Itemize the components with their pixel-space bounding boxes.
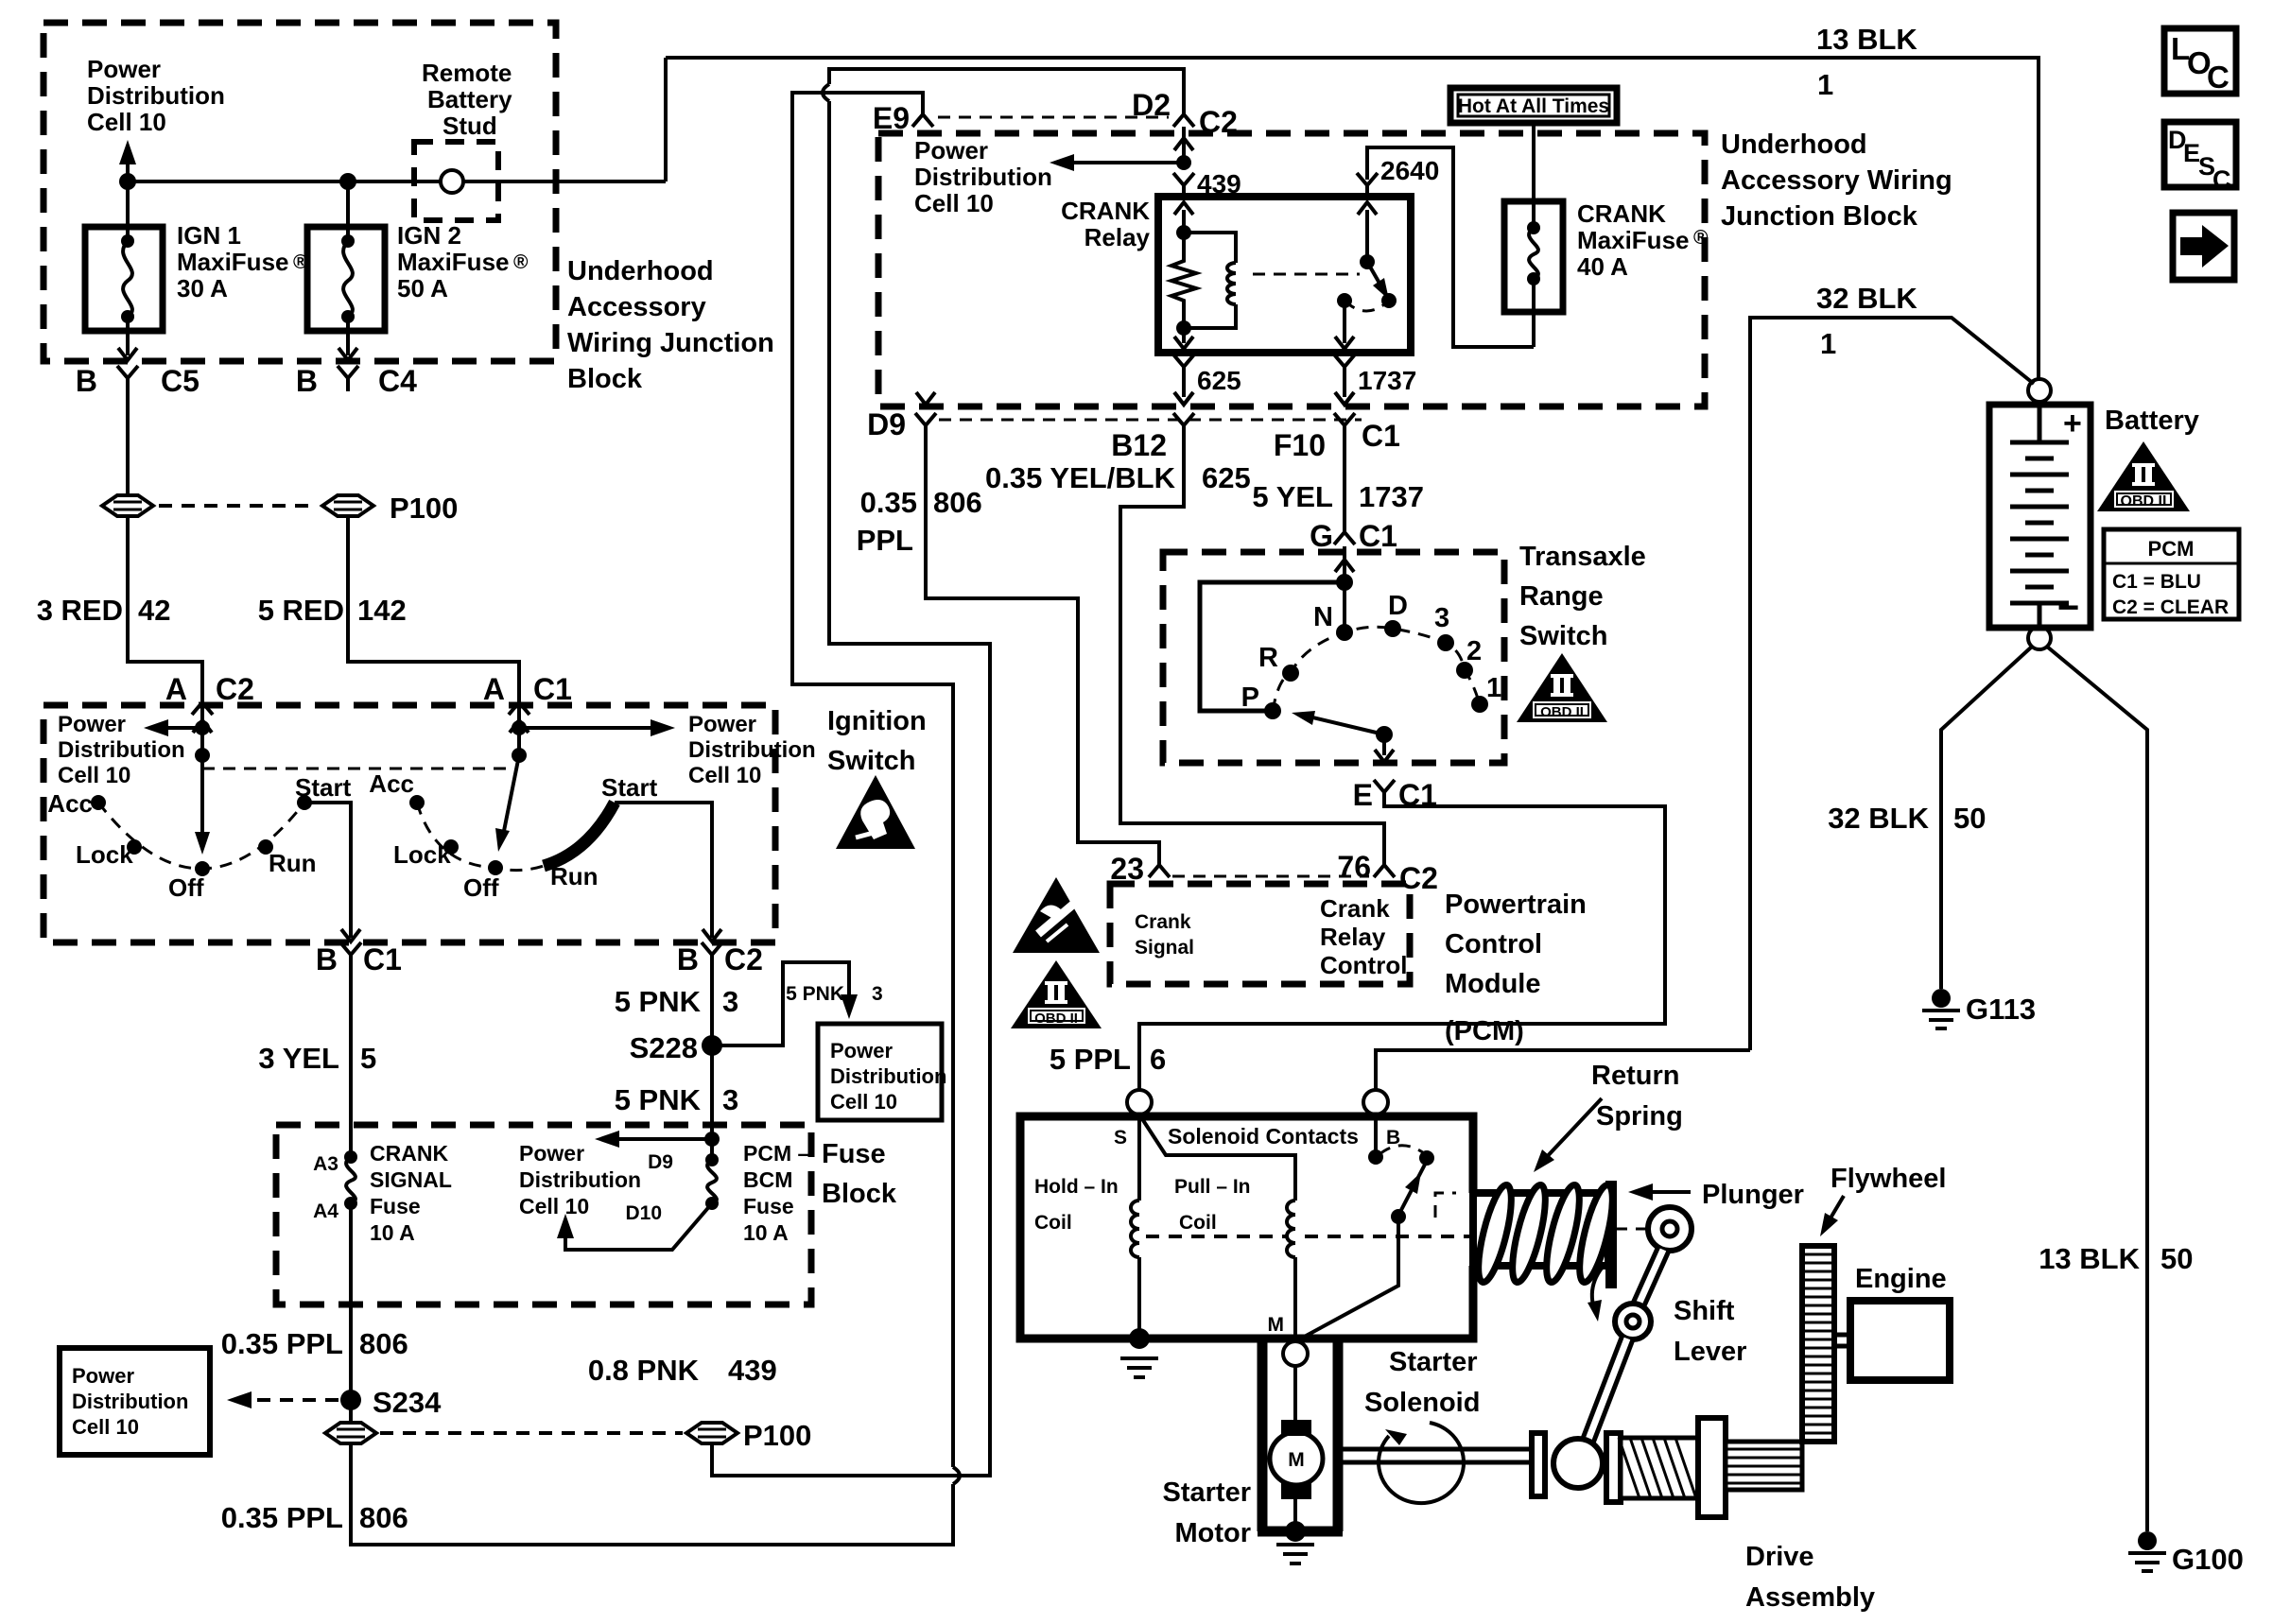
- wire start left to BC1: [304, 803, 351, 938]
- wire D2 439 drop: [1063, 127, 1184, 163]
- wire E to solenoid S: [1139, 805, 1665, 1089]
- svg-text:P100: P100: [390, 492, 458, 525]
- battery cell plates: [2038, 401, 2042, 442]
- label crank relay control: [1320, 894, 1407, 979]
- svg-text:Cell 10: Cell 10: [58, 763, 130, 788]
- svg-text:3 YEL: 3 YEL: [258, 1042, 339, 1075]
- connector E9: [912, 102, 933, 127]
- svg-text:1737: 1737: [1359, 480, 1424, 513]
- node relay coil bottom: [1176, 320, 1191, 336]
- wire pull-in to M: [1293, 1257, 1297, 1339]
- contact AccL: [91, 795, 106, 810]
- wire 32 BLK: [1750, 318, 2034, 1050]
- wire 0.35 PPL long run: [351, 93, 953, 1545]
- label shift lever: [1674, 1296, 1746, 1367]
- wire ignition right feed: [517, 705, 521, 755]
- svg-text:Distribution: Distribution: [58, 737, 185, 763]
- svg-text:5 YEL: 5 YEL: [1252, 480, 1333, 513]
- svg-text:®: ®: [1693, 227, 1709, 249]
- junction block right dashed box: [878, 133, 1705, 406]
- drive pinion gear: [1726, 1442, 1802, 1490]
- wire start right to BC2: [615, 803, 712, 938]
- svg-text:42: 42: [138, 594, 170, 627]
- label remote battery stud: [422, 59, 512, 140]
- crank relay box: [1158, 197, 1411, 353]
- svg-text:Stud: Stud: [442, 112, 497, 140]
- svg-text:Off: Off: [168, 873, 204, 902]
- flywheel pointer: [1826, 1196, 1844, 1226]
- label 5 RED 142: [258, 594, 407, 627]
- wire IGN1 out: [126, 317, 130, 355]
- wire PPL below fuse: [349, 1203, 353, 1423]
- svg-text:A: A: [165, 672, 187, 706]
- svg-text:Distribution: Distribution: [72, 1390, 188, 1413]
- svg-text:Wiring Junction: Wiring Junction: [567, 328, 774, 358]
- svg-text:A3: A3: [313, 1153, 338, 1175]
- svg-text:B: B: [76, 364, 97, 398]
- contact R: [1282, 665, 1299, 682]
- svg-text:13 BLK: 13 BLK: [1816, 23, 1917, 56]
- svg-text:10 A: 10 A: [743, 1220, 789, 1245]
- wire S to pull-in: [1139, 1114, 1295, 1201]
- svg-text:Accessory Wiring: Accessory Wiring: [1721, 165, 1952, 196]
- svg-text:Distribution: Distribution: [914, 163, 1052, 191]
- contact dashed arc: [1379, 1146, 1424, 1154]
- svg-text:B: B: [296, 364, 318, 398]
- wire 3 RED down: [126, 391, 130, 495]
- wiper arm left: [200, 755, 204, 838]
- wire 3 RED to A C2: [128, 516, 202, 692]
- wire 5 RED to A C1: [348, 516, 519, 692]
- svg-text:M: M: [1268, 1314, 1285, 1336]
- wire D10 branch: [565, 1203, 712, 1250]
- wire to IGN2: [346, 181, 350, 241]
- return spring pointer: [1543, 1098, 1602, 1161]
- label 5 YEL 1737: [1252, 480, 1424, 513]
- arrow power dist fuse block: [608, 1137, 712, 1141]
- svg-text:Starter: Starter: [1163, 1477, 1252, 1508]
- fuse crank signal element: [344, 1150, 357, 1164]
- contact arc left: [98, 803, 304, 869]
- svg-text:625: 625: [1197, 366, 1241, 395]
- svg-text:E: E: [1353, 778, 1373, 812]
- connector 439: [1174, 138, 1193, 150]
- label starter solenoid: [1364, 1347, 1480, 1418]
- label pull-in coil: [1174, 1176, 1251, 1234]
- svg-text:Acc: Acc: [47, 789, 93, 818]
- svg-text:OBD II: OBD II: [2121, 493, 2167, 510]
- svg-text:(PCM): (PCM): [1445, 1016, 1524, 1046]
- arrow to power distribution: [126, 153, 130, 181]
- plunger dashed corner: [1435, 1193, 1456, 1218]
- label ignition switch: [827, 706, 927, 776]
- terminal B: [1363, 1090, 1388, 1114]
- connector B C4: [338, 366, 358, 391]
- svg-text:B: B: [677, 942, 699, 976]
- fuse IGN2 box: [307, 227, 385, 331]
- svg-text:Power: Power: [72, 1364, 134, 1388]
- dashed arrow S234: [240, 1398, 338, 1402]
- wire battery to grounds: [1941, 647, 2147, 1531]
- splice P100 PPL: [325, 1423, 376, 1443]
- relay pin439 arrow: [1182, 210, 1186, 233]
- svg-text:Crank: Crank: [1135, 911, 1191, 933]
- svg-text:Power: Power: [830, 1039, 893, 1063]
- label 13 BLK 1: [1816, 23, 1917, 101]
- node ignition right: [512, 720, 527, 735]
- svg-text:5: 5: [360, 1042, 376, 1075]
- starter motor frame: [1258, 1339, 1343, 1531]
- svg-text:M: M: [1288, 1449, 1305, 1471]
- wire M to brush: [1293, 1366, 1297, 1420]
- splice P100 right: [322, 495, 373, 516]
- svg-text:Fuse: Fuse: [822, 1139, 886, 1169]
- svg-text:625: 625: [1202, 461, 1251, 494]
- wiper arm right: [503, 755, 519, 836]
- svg-text:Spring: Spring: [1596, 1101, 1683, 1132]
- dashed P100 link bottom: [380, 1431, 683, 1435]
- remote battery stud terminal: [441, 170, 463, 193]
- caution OBD PCM: [1011, 960, 1102, 1028]
- transaxle contact arc: [1273, 627, 1480, 711]
- caution OBD battery: [2097, 441, 2190, 511]
- svg-text:Battery: Battery: [2105, 406, 2199, 436]
- svg-text:3: 3: [722, 1083, 738, 1116]
- svg-text:Lever: Lever: [1674, 1337, 1746, 1367]
- label IGN1: [177, 221, 308, 302]
- svg-text:Block: Block: [822, 1179, 897, 1209]
- node 439: [1176, 155, 1191, 170]
- svg-text:30 A: 30 A: [177, 274, 228, 302]
- svg-text:Transaxle: Transaxle: [1519, 542, 1646, 572]
- svg-text:Power: Power: [87, 55, 161, 83]
- LOC box: [2164, 28, 2236, 94]
- node wiper left: [195, 748, 210, 763]
- svg-text:SIGNAL: SIGNAL: [370, 1167, 452, 1192]
- battery negative terminal: [2028, 627, 2051, 649]
- svg-text:5 RED: 5 RED: [258, 594, 344, 627]
- crank maxifuse box: [1504, 201, 1563, 312]
- svg-text:Coil: Coil: [1179, 1212, 1217, 1234]
- svg-text:5 PNK: 5 PNK: [615, 985, 702, 1018]
- svg-text:Engine: Engine: [1855, 1264, 1947, 1294]
- label 5 PPL 6: [1050, 1043, 1166, 1076]
- svg-text:−: −: [2057, 587, 2079, 629]
- contact LockR: [443, 839, 459, 855]
- label power distribution cell 10 top-left: [87, 55, 225, 136]
- svg-text:806: 806: [933, 486, 982, 519]
- fuse pcm-bcm element: [705, 1153, 719, 1166]
- relay switch arm: [1367, 262, 1385, 293]
- svg-text:Hold – In: Hold – In: [1034, 1176, 1119, 1198]
- box power distribution bottom left: [60, 1348, 210, 1455]
- fuse IGN2 element: [341, 234, 355, 248]
- engine shaft: [1834, 1335, 1850, 1346]
- svg-text:IGN 2: IGN 2: [397, 221, 461, 250]
- svg-text:5 PNK: 5 PNK: [615, 1083, 702, 1116]
- label fuse block: [822, 1139, 897, 1209]
- svg-text:C2: C2: [216, 672, 254, 706]
- label 0.35 PPL 806 lower: [221, 1501, 408, 1534]
- wire 0.8 PNK long run: [712, 69, 1184, 1476]
- wire maxifuse out: [1504, 279, 1534, 347]
- dashed connector row: [939, 419, 1362, 422]
- svg-text:40 A: 40 A: [1577, 252, 1628, 281]
- label 5 PNK 3 lower: [615, 1083, 739, 1116]
- svg-text:P100: P100: [743, 1419, 811, 1452]
- label 32 BLK 50: [1828, 802, 1986, 835]
- svg-text:76: 76: [1337, 850, 1371, 884]
- contact AccR: [409, 795, 425, 810]
- svg-text:Block: Block: [567, 364, 643, 394]
- svg-text:PPL: PPL: [857, 524, 913, 557]
- wire 2640: [1367, 147, 1504, 347]
- svg-text:S234: S234: [373, 1386, 442, 1419]
- svg-text:0.35 YEL/BLK: 0.35 YEL/BLK: [985, 461, 1176, 494]
- relay output node: [1337, 293, 1352, 308]
- node relay coil top: [1176, 225, 1191, 240]
- battery box: [1989, 405, 2091, 628]
- svg-text:0.35: 0.35: [860, 486, 917, 519]
- svg-text:6: 6: [1150, 1043, 1166, 1076]
- svg-text:Cell 10: Cell 10: [519, 1194, 589, 1218]
- ground hold-in: [1129, 1328, 1150, 1349]
- svg-text:P: P: [1241, 682, 1259, 713]
- svg-text:Distribution: Distribution: [519, 1167, 641, 1192]
- dashed P100 link: [159, 504, 317, 508]
- wire to IGN1: [126, 181, 130, 241]
- svg-text:C1: C1: [1362, 419, 1400, 453]
- svg-text:Fuse: Fuse: [743, 1194, 794, 1218]
- svg-text:F10: F10: [1274, 428, 1326, 462]
- wire hop PPL: [953, 1467, 960, 1484]
- node bus IGN1: [119, 173, 136, 190]
- label 0.35 PPL 806 D9: [857, 486, 982, 557]
- svg-text:D: D: [1388, 591, 1408, 621]
- node switch feed: [1336, 574, 1353, 591]
- svg-text:Powertrain: Powertrain: [1445, 890, 1587, 920]
- drive collar1: [1532, 1433, 1545, 1496]
- svg-text:Relay: Relay: [1084, 223, 1151, 251]
- transaxle wiper: [1376, 726, 1393, 743]
- svg-text:Cell 10: Cell 10: [72, 1415, 139, 1439]
- svg-text:1737: 1737: [1358, 366, 1416, 395]
- svg-text:Assembly: Assembly: [1745, 1582, 1875, 1613]
- label 5 PNK 3 upper: [615, 985, 739, 1018]
- svg-text:A: A: [483, 672, 505, 706]
- connector 1737: [1334, 354, 1355, 380]
- svg-text:+: +: [2063, 406, 2082, 441]
- label 3 YEL 5: [258, 1042, 376, 1075]
- svg-text:OBD II: OBD II: [1540, 704, 1584, 720]
- PCM legend box: [2104, 529, 2239, 619]
- relay resistor: [1171, 233, 1196, 328]
- label pcm-bcm fuse: [743, 1141, 810, 1245]
- svg-text:®: ®: [513, 251, 529, 273]
- plunger face plate: [1605, 1181, 1617, 1288]
- label drive assembly: [1745, 1542, 1875, 1613]
- svg-text:Crank: Crank: [1320, 894, 1390, 923]
- svg-text:5 PPL: 5 PPL: [1050, 1043, 1131, 1076]
- starter solenoid box: [1020, 1116, 1473, 1339]
- label starter motor: [1163, 1477, 1252, 1548]
- dashed link E9 D2: [938, 116, 1169, 119]
- svg-text:Cell 10: Cell 10: [87, 108, 166, 136]
- svg-text:Coil: Coil: [1034, 1212, 1072, 1234]
- svg-text:C2: C2: [724, 942, 763, 976]
- flywheel: [1802, 1246, 1834, 1442]
- mechanical link dashed: [202, 768, 509, 770]
- svg-text:C: C: [2212, 165, 2231, 194]
- motor rotor: [1270, 1432, 1323, 1485]
- svg-text:Drive: Drive: [1745, 1542, 1814, 1572]
- svg-text:CRANK: CRANK: [370, 1141, 448, 1166]
- contact OffL: [195, 861, 210, 876]
- svg-text:OBD II: OBD II: [1034, 1011, 1078, 1027]
- arrow power dist ign-right: [519, 726, 662, 730]
- label crank signal: [1135, 911, 1194, 959]
- svg-text:G113: G113: [1966, 993, 2036, 1026]
- drive pinion stop: [1698, 1418, 1726, 1517]
- rotation arrow: [1379, 1423, 1464, 1503]
- wiper to E: [1382, 734, 1386, 755]
- brush top: [1281, 1420, 1311, 1436]
- svg-text:13 BLK: 13 BLK: [2039, 1242, 2140, 1275]
- wire S228 branch: [712, 962, 849, 1045]
- splice P100 PNK: [686, 1423, 737, 1443]
- svg-text:Power: Power: [688, 712, 756, 737]
- DESC box: [2164, 122, 2236, 187]
- wire stud bus: [128, 180, 666, 183]
- wire 5 PNK: [710, 968, 714, 1160]
- svg-text:R: R: [1258, 643, 1278, 673]
- motor shaft: [1343, 1449, 1534, 1462]
- svg-text:Signal: Signal: [1135, 937, 1194, 959]
- svg-text:2: 2: [1466, 636, 1482, 666]
- svg-text:3: 3: [872, 983, 883, 1005]
- shift lever motion arrow: [1592, 1259, 1610, 1312]
- svg-text:1: 1: [1486, 673, 1501, 703]
- hot at all times box: [1450, 88, 1617, 123]
- svg-text:BCM: BCM: [743, 1167, 792, 1192]
- svg-text:Accessory: Accessory: [567, 292, 706, 322]
- svg-text:Battery: Battery: [427, 85, 512, 113]
- forward arrow box: [2173, 213, 2234, 280]
- caution ESD: [1013, 877, 1100, 953]
- connector B C5: [117, 366, 138, 391]
- coil hold-in: [1131, 1201, 1139, 1257]
- ignition switch dashed box: [43, 705, 775, 942]
- return spring coils: [1472, 1183, 1518, 1286]
- wire hold-in ground: [1137, 1257, 1141, 1339]
- arrow power dist ign-left: [157, 726, 202, 730]
- node D9 feed: [704, 1132, 720, 1147]
- relay switch common: [1360, 254, 1375, 269]
- relay coil: [1184, 233, 1236, 263]
- svg-text:Pull – In: Pull – In: [1174, 1176, 1251, 1198]
- svg-text:Plunger: Plunger: [1702, 1180, 1804, 1210]
- shift lever arm1: [1639, 1250, 1663, 1304]
- svg-text:C1 = BLU: C1 = BLU: [2112, 571, 2201, 593]
- contact 3: [1437, 634, 1454, 651]
- shift lever ball: [1553, 1439, 1603, 1488]
- label 0.35 PPL 806 upper: [221, 1327, 408, 1360]
- shift lever link dashed: [1615, 1228, 1647, 1231]
- connector F10 C1: [1335, 392, 1354, 405]
- svg-text:Acc: Acc: [369, 769, 414, 798]
- connector D9: [916, 392, 935, 405]
- svg-text:Relay: Relay: [1320, 923, 1386, 951]
- wire D9 to PCM23: [926, 439, 1159, 854]
- svg-text:Fuse: Fuse: [370, 1194, 421, 1218]
- contact LockL: [127, 839, 142, 855]
- plunger body: [1473, 1193, 1608, 1266]
- svg-text:Control: Control: [1320, 951, 1407, 979]
- svg-text:Underhood: Underhood: [567, 256, 714, 286]
- label power distribution ign-right: [688, 712, 816, 788]
- svg-text:806: 806: [359, 1327, 408, 1360]
- connector B C2: [702, 942, 722, 968]
- splice S234: [340, 1390, 361, 1410]
- svg-text:142: 142: [357, 594, 407, 627]
- wire to contact N: [1343, 582, 1346, 632]
- svg-text:C: C: [2207, 60, 2230, 95]
- label underhood accessory wiring junction block left: [567, 256, 774, 394]
- contact 2: [1456, 662, 1473, 679]
- label 5 PNK 3 branch: [786, 983, 883, 1005]
- svg-text:Lock: Lock: [76, 840, 133, 869]
- label return spring: [1591, 1061, 1683, 1132]
- relay link dashed: [1253, 273, 1360, 276]
- label crank maxifuse: [1577, 199, 1709, 281]
- svg-text:Module: Module: [1445, 969, 1541, 999]
- caution OBD transaxle: [1517, 653, 1607, 722]
- terminal S: [1127, 1090, 1152, 1114]
- transaxle switch dashed box: [1163, 552, 1504, 763]
- svg-text:Flywheel: Flywheel: [1831, 1164, 1947, 1194]
- fuse IGN1 box: [85, 227, 163, 331]
- drive collar2: [1606, 1433, 1621, 1502]
- label crank signal fuse: [370, 1141, 452, 1245]
- connector B C1: [340, 942, 361, 968]
- svg-text:S: S: [1114, 1127, 1127, 1149]
- svg-text:B: B: [316, 942, 338, 976]
- svg-text:PCM –: PCM –: [743, 1141, 810, 1166]
- connector E C1: [1374, 780, 1395, 805]
- svg-text:S228: S228: [630, 1031, 698, 1064]
- wire B12 to PCM76: [1120, 439, 1384, 855]
- relay throw dashed: [1345, 301, 1389, 311]
- wire IGN2 out: [346, 317, 350, 355]
- svg-text:CRANK: CRANK: [1061, 197, 1150, 225]
- svg-text:0.35 PPL: 0.35 PPL: [221, 1327, 343, 1360]
- svg-text:MaxiFuse: MaxiFuse: [1577, 226, 1690, 254]
- contact B arm: [1374, 1114, 1378, 1151]
- label power distribution 439: [914, 136, 1052, 217]
- svg-text:MaxiFuse: MaxiFuse: [397, 248, 510, 276]
- svg-text:3: 3: [1434, 603, 1449, 633]
- svg-text:Starter: Starter: [1389, 1347, 1478, 1377]
- svg-text:806: 806: [359, 1501, 408, 1534]
- svg-text:C5: C5: [161, 364, 200, 398]
- contact StartL: [297, 795, 312, 810]
- connector 76 C2: [1374, 853, 1395, 877]
- svg-text:Cell 10: Cell 10: [830, 1090, 897, 1114]
- svg-text:C1: C1: [1359, 519, 1397, 553]
- svg-text:CRANK: CRANK: [1577, 199, 1666, 228]
- contact OffR: [488, 860, 503, 875]
- svg-text:Junction Block: Junction Block: [1721, 201, 1918, 232]
